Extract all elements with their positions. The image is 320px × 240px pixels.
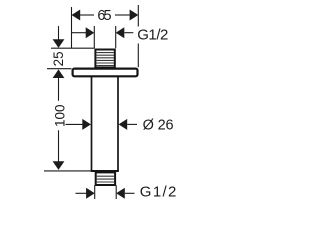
flange (escutcheon)	[73, 69, 138, 77]
dim 65: right arrow	[115, 10, 138, 21]
top thread G1/2 (hatched block)	[95, 50, 114, 68]
bottom thread dim: left arrow (points right)	[76, 188, 95, 199]
svg-text:G1/2: G1/2	[140, 184, 177, 201]
top thread dim: left arrow (points right)	[72, 27, 95, 38]
dim 65: right extension line (gap at G1/2 label)	[137, 5, 139, 67]
svg-text:G1/2: G1/2	[137, 27, 168, 44]
ceiling reference line	[51, 47, 94, 49]
top thread dim: left extension line	[93, 26, 95, 48]
svg-text:Ø 26: Ø 26	[143, 118, 174, 134]
top thread dim: right arrow (points left)	[116, 27, 134, 38]
dim diameter 26: right arrow (points left)	[119, 119, 137, 130]
flange top extension line	[47, 68, 72, 70]
bottom thread dim: right extension line	[115, 185, 117, 199]
dim 100: lower line and arrow (points down)	[53, 130, 65, 170]
dim 65: left arrow	[72, 10, 95, 21]
bottom thread dim: right arrow (points left)	[116, 188, 134, 199]
svg-text:65: 65	[97, 8, 111, 24]
bottom thread G1/2 (hatched block)	[96, 172, 115, 185]
top thread dim: right extension line	[115, 26, 117, 48]
pipe bottom extension line	[44, 170, 91, 172]
dim diameter 26: left arrow (points right)	[66, 119, 91, 130]
dim 25: upper arrow (points down)	[53, 26, 65, 48]
dim 100: upper arrow (points up)	[53, 69, 65, 100]
bottom thread dim: left extension line	[94, 185, 96, 199]
dim 65: left extension line	[71, 7, 73, 48]
svg-text:25: 25	[51, 51, 66, 66]
pipe body	[91, 77, 119, 171]
svg-text:100: 100	[52, 104, 67, 127]
